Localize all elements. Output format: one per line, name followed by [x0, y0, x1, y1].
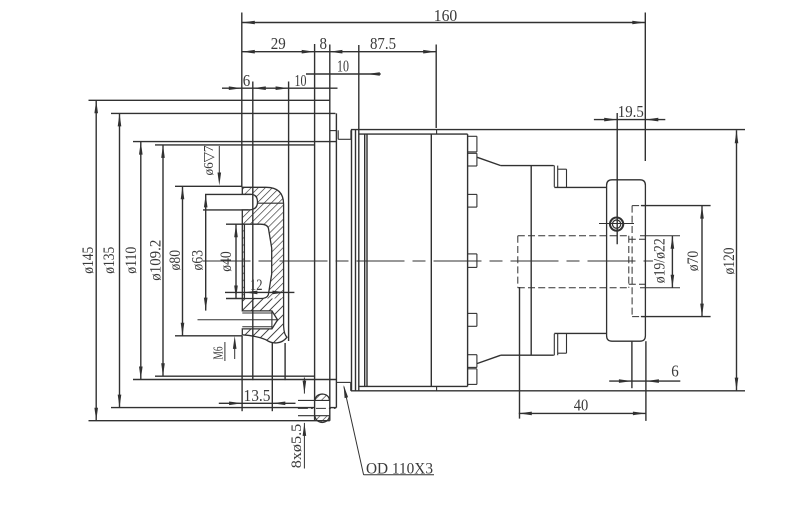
hatching bolt-hole rim section [310, 390, 335, 405]
svg-text:40: 40 [574, 395, 589, 414]
disc [607, 180, 646, 341]
radial hole with crosshair [599, 223, 634, 225]
svg-text:ø135: ø135 [101, 246, 118, 273]
dimension dia19/dia22 [640, 236, 680, 288]
taper section to motor mount [501, 166, 567, 356]
dimension 10 upper [306, 73, 381, 75]
svg-text:OD 110X3: OD 110X3 [366, 461, 433, 478]
front flange plate and diameter dimensions [89, 100, 337, 420]
dimension 12 [225, 291, 294, 293]
svg-text:ø110: ø110 [123, 246, 140, 273]
8x dia5.5 bolt holes [298, 378, 336, 469]
svg-text:8: 8 [319, 34, 327, 53]
svg-text:87.5: 87.5 [370, 34, 396, 53]
hole-inner [613, 220, 621, 228]
hole lens top [315, 394, 330, 400]
shaft neck [554, 187, 607, 333]
M6 tapped hole label [219, 146, 234, 361]
dimension dia120 [736, 130, 738, 390]
svg-text:10: 10 [295, 71, 307, 90]
dimensions 29 / 8 / 87.5 [242, 51, 436, 53]
hatching cup section [200, 150, 330, 369]
hole-outer [610, 218, 623, 231]
main gearbox housing [351, 130, 745, 391]
centerline [203, 260, 654, 262]
dimension 19.5 [594, 119, 665, 121]
svg-text:ø80: ø80 [167, 250, 184, 271]
diag-bot [477, 355, 501, 363]
svg-text:ø145: ø145 [80, 246, 97, 273]
dimension 160 overall length [242, 22, 646, 24]
hole lens bottom [315, 416, 330, 423]
dimension 13.5 [219, 336, 296, 411]
cup [242, 187, 287, 343]
dimension 6 right [609, 380, 680, 382]
output flange disc [632, 206, 711, 421]
diag-top [477, 157, 501, 165]
output cup details [198, 194, 284, 329]
OD 110X3 o-ring label [364, 474, 434, 476]
extension lines [242, 13, 646, 421]
svg-text:6: 6 [243, 71, 251, 90]
svg-text:6: 6 [671, 362, 679, 381]
svg-text:19.5: 19.5 [618, 102, 644, 121]
svg-text:M6: M6 [212, 347, 227, 360]
svg-text:8xø5.5: 8xø5.5 [289, 424, 305, 469]
svg-text:ø19/ø22: ø19/ø22 [651, 238, 668, 283]
svg-text:12: 12 [250, 277, 263, 294]
svg-text:160: 160 [434, 6, 458, 25]
svg-text:ø70: ø70 [685, 251, 702, 272]
dimension arrowheads [94, 21, 738, 436]
hidden bore dia19/dia22 dashed [518, 236, 646, 288]
svg-text:13.5: 13.5 [244, 386, 271, 405]
svg-text:ø40: ø40 [218, 251, 235, 272]
dimension 40 [519, 287, 646, 419]
leader [344, 387, 364, 475]
svg-text:ø120: ø120 [721, 247, 738, 274]
svg-text:ø109.2: ø109.2 [147, 240, 164, 281]
svg-text:ø6▽7: ø6▽7 [202, 146, 217, 176]
dimension dia70 [701, 206, 703, 317]
dimensions 6 and 10 [222, 87, 338, 89]
svg-text:ø63: ø63 [190, 250, 207, 271]
svg-text:10: 10 [337, 57, 349, 76]
housing bolt tabs [468, 136, 477, 384]
svg-text:29: 29 [271, 34, 286, 53]
adapter ring and o-ring groove [330, 45, 367, 408]
